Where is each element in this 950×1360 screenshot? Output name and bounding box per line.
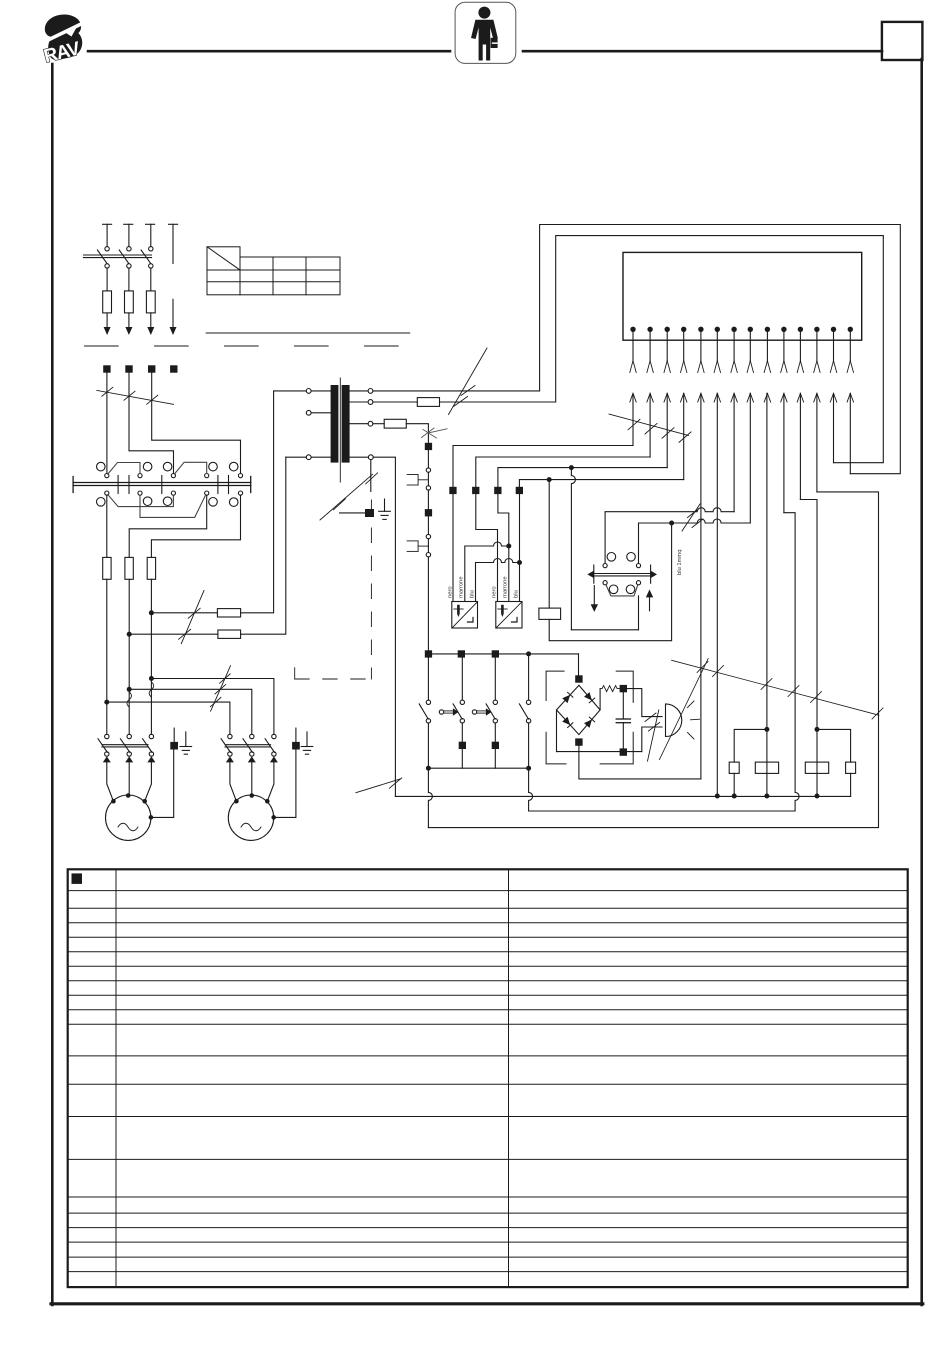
right arrow head [651, 571, 657, 578]
contactor coil group KM1 [729, 727, 778, 796]
wire X3 row to rectifier [578, 654, 580, 675]
plus terminal square [620, 685, 627, 692]
bottom terminal square [575, 738, 582, 745]
connector pin circle [426, 468, 430, 472]
core line [339, 378, 341, 482]
wire pin1 to X2-1 [453, 446, 633, 487]
SQ1 blu branch with hops [476, 559, 520, 602]
long cable line D11 [672, 660, 883, 719]
cup bridge [606, 585, 638, 596]
junction node [764, 727, 769, 732]
moving contact bottom right [636, 581, 640, 585]
long cable line D10 [659, 659, 708, 760]
branch from pin3 wire with hop, down to tilt cup return [571, 468, 575, 630]
svg-text:marrone: marrone [459, 576, 465, 598]
wire [427, 450, 429, 468]
relay K1 bottom wire [549, 523, 671, 641]
neutral segment upper [172, 224, 174, 263]
relay coil K1 [539, 608, 561, 619]
sq3 to SQ2 marrone [498, 494, 509, 601]
junction node right [526, 766, 531, 771]
motor M2 [228, 793, 276, 840]
wire SB1 common down to bottom-most wire (hops bus) [428, 768, 432, 827]
fixed ring top left [607, 553, 616, 562]
wires to fuses [106, 268, 108, 291]
contactor coil group KM2 [805, 727, 855, 797]
pin 2 [647, 327, 653, 457]
contactor KM1 contacts [98, 734, 155, 801]
wire pin8 to tilt contact 2 (with hops) [639, 519, 751, 563]
transformer TC1 [274, 378, 374, 482]
PE terminal square 2 [292, 742, 300, 750]
wire L1 drop [106, 224, 108, 246]
neutral tick [169, 223, 178, 225]
pin 12 [814, 327, 820, 492]
terminal square [425, 443, 432, 450]
bus double line [73, 482, 251, 484]
lower fixed contact rings [97, 498, 106, 507]
pin 3 [664, 327, 670, 468]
moving contact top left [603, 564, 607, 568]
switch contact circles bottom [105, 264, 109, 268]
motor M2 PE wire [274, 750, 296, 818]
diode 1 [562, 692, 573, 703]
bridge rectifier VD1 [546, 671, 662, 764]
up arrow [646, 590, 653, 598]
primary feed wire top [274, 390, 307, 392]
diode 4 [584, 717, 595, 728]
secondary common wire to bottom bus [373, 457, 395, 796]
secondary stubs from bar [350, 390, 369, 392]
dashed boundary bottom [295, 678, 372, 680]
cable marker D3 [422, 428, 448, 438]
ground symbol [379, 499, 391, 519]
connector pins: dots, forks, arrows [630, 327, 854, 796]
lower moving contacts [105, 491, 109, 495]
lower bridge A [108, 495, 174, 507]
wire pin2 to X2-2 [476, 457, 650, 487]
wire pin12 to right side loop [428, 492, 878, 828]
plug fork [407, 541, 428, 552]
fuse L2 [125, 291, 134, 313]
terminal square [425, 509, 432, 516]
parallel branch bracket [817, 729, 851, 762]
aux coil [729, 762, 739, 773]
wires fuse to arrows [106, 313, 108, 327]
actuator bar double line [594, 573, 651, 575]
down arrow [593, 586, 595, 605]
rectifier return wire [579, 752, 701, 779]
left arrow head [587, 571, 593, 578]
connector socket circle [426, 486, 430, 490]
junction node left [426, 766, 431, 771]
junction node W tap [149, 610, 154, 615]
main coil KM2 [805, 762, 828, 773]
cable marker D12 [356, 778, 402, 793]
pushbutton SB4 [519, 654, 530, 768]
tap wire U to motor 2 [107, 702, 230, 734]
secondary wire to control column with fuse FU7 [373, 419, 429, 443]
pin 9 [764, 327, 770, 796]
pin 7 [731, 327, 737, 512]
pole L2 tick [124, 223, 133, 225]
motor feed junction nodes [149, 676, 154, 681]
thermal triangles [226, 756, 234, 762]
pole ticks [117, 476, 119, 494]
wire pin10 jog, hops bus [529, 513, 800, 811]
junction node [526, 651, 531, 656]
wire L3 [152, 373, 241, 474]
pin 6 [714, 327, 720, 796]
bottom bus [395, 794, 850, 799]
aux coil [846, 762, 856, 773]
pushbutton SB2 with plunger [439, 658, 466, 769]
dashed boundary line [85, 345, 401, 347]
earth terminal square [365, 509, 374, 517]
primary terminal top [306, 389, 311, 394]
secondary wire with fuse FU6 [373, 236, 883, 463]
connector pin circle [426, 534, 430, 538]
upper bridge 2 [174, 462, 206, 474]
ground symbol 2 [180, 732, 192, 754]
fixed ring top right [627, 553, 636, 562]
pushbutton SB3 with plunger [472, 658, 499, 769]
control fuses FU1-FU3 [103, 557, 156, 579]
moving contact bottom left [603, 581, 607, 585]
linkage double bar [84, 254, 152, 256]
capacitor bottom terminal square [620, 748, 627, 755]
pin 5 [698, 327, 704, 779]
junction nodes on bus [715, 794, 720, 799]
row wire [428, 653, 578, 655]
junction node blu [517, 560, 522, 565]
ground symbol 3 [301, 732, 313, 754]
junction node V tap [127, 632, 132, 637]
wire [427, 516, 429, 534]
output 3 [151, 495, 240, 557]
diamond [557, 685, 601, 734]
dc plus via resistor R1 [599, 689, 601, 710]
proximity sensor SQ2 [492, 576, 523, 628]
dc minus rail [557, 751, 642, 753]
pushbutton SB1 [419, 658, 430, 769]
earth wire [340, 512, 366, 514]
plug fork [407, 475, 428, 486]
lower circles [105, 752, 109, 756]
tap wire W to motor 2 [151, 679, 274, 735]
cup output wire [638, 596, 640, 630]
header rule right of icon [523, 50, 882, 53]
pin 11 [797, 327, 803, 500]
stub above [173, 728, 175, 742]
motor M1 [106, 793, 154, 840]
cable marker D7 [609, 414, 691, 442]
header rule left of icon [88, 50, 450, 53]
junction node [815, 727, 820, 732]
flex squiggle on V [127, 692, 132, 707]
parallel branch bracket [734, 729, 767, 762]
capacitor C1 [622, 692, 624, 719]
border left [51, 64, 54, 1305]
pin 1 [630, 327, 636, 446]
secondary terminal 4 [368, 455, 373, 460]
wire V [128, 579, 130, 734]
output 2 [129, 495, 207, 557]
cable marker D9 [645, 710, 660, 761]
junction node on pin3 wire [569, 465, 574, 470]
down arrows [104, 327, 111, 335]
lower circles [228, 752, 232, 756]
diode 3 [562, 717, 573, 728]
bar end posts [593, 565, 595, 583]
junction node on pin8 wire [669, 521, 674, 526]
wire SB4 common down to mid wire (hops bus) [529, 768, 533, 811]
thermal triangles [103, 756, 111, 762]
tap wire V to motor 2 [129, 689, 252, 734]
pole L3 tick [146, 223, 155, 225]
primary bar [331, 385, 339, 463]
upper bridge 1 [108, 463, 140, 475]
pin 13 [830, 327, 836, 463]
secondary bar [342, 385, 350, 463]
primary feed wire bottom [286, 456, 307, 458]
pushbutton common wire [428, 767, 528, 769]
dashed boundary vertical [370, 500, 372, 679]
primary feed wire 1 with fuse FU4 [151, 612, 217, 614]
connector block X10 [623, 252, 862, 340]
flex squiggle on W [149, 682, 154, 697]
wire L2 [129, 373, 174, 474]
fixed ring bottom left [609, 585, 618, 594]
branch from pin4 wire to relay K1 [548, 480, 550, 608]
sq2 to SQ2 nero [476, 494, 498, 601]
output 1 [106, 495, 108, 557]
top-right revision box [882, 22, 923, 60]
wire tilt return [571, 629, 638, 631]
pin 10 [781, 327, 787, 513]
rating table [207, 247, 340, 295]
secondary terminal 3 [368, 421, 373, 426]
svg-text:nero: nero [448, 586, 454, 598]
fixed ring bottom right [626, 585, 635, 594]
terminal strip X1 (4 squares) [103, 365, 177, 372]
proximity sensor SQ1 [448, 576, 478, 628]
motor M1 PE wire [151, 750, 174, 818]
cable marker D1 [97, 387, 174, 404]
separator line under rating table [206, 332, 409, 334]
wire pin7 to tilt contact 1 (with hops) [605, 508, 734, 564]
wire L3 drop [150, 224, 152, 246]
legend table [68, 869, 908, 1287]
wire pin11 jog [800, 500, 817, 797]
main coil KM1 [755, 762, 778, 773]
pin 8 [747, 327, 753, 523]
fuse L3 [146, 291, 155, 313]
cable marker D5 [179, 591, 204, 644]
pin 14 [847, 327, 853, 474]
wire [427, 490, 429, 509]
bottom wire [578, 746, 580, 752]
border bottom [51, 1302, 923, 1305]
border right [920, 59, 923, 1305]
control column at x=428 [407, 443, 432, 651]
pin 4 [681, 327, 687, 480]
upper moving contacts [105, 474, 109, 478]
tilt / hand control switch assembly [587, 553, 657, 630]
svg-text:blu 1mmq: blu 1mmq [677, 550, 683, 575]
svg-text:marrone: marrone [503, 576, 509, 598]
junction node on pin4 wire [547, 477, 552, 482]
secondary terminal 2 [368, 400, 373, 405]
secondary terminal 0V top [368, 389, 373, 394]
switch contact circles top [105, 247, 109, 251]
SQ1 marrone branch with hop [465, 542, 509, 602]
sq4 to SQ2 blu [519, 494, 521, 601]
wire U [106, 579, 108, 734]
pole L1 tick [103, 223, 112, 225]
wire L1 [106, 373, 108, 474]
person icon [455, 2, 516, 63]
junction node marrone [506, 544, 511, 549]
diode 2 [584, 692, 595, 703]
wire W [150, 579, 152, 734]
svg-text:blu: blu [470, 590, 476, 598]
PE terminal square 1 [170, 742, 178, 750]
primary stubs to bar [311, 390, 331, 392]
wire pin3 to X2-3 [498, 468, 667, 487]
lamp HL1 [666, 701, 700, 739]
neutral segment lower [172, 299, 174, 327]
upper fixed contact rings [97, 462, 106, 471]
pushbutton row terminal squares [425, 650, 579, 657]
wire pin4 to X2-4 [519, 480, 683, 487]
cable marker D2 [449, 348, 488, 415]
svg-text:blu: blu [514, 590, 520, 598]
dashed boundary left tick [294, 668, 296, 679]
changeover switch (up/down inverter) [73, 462, 251, 517]
dashed enclosure corner brackets [546, 671, 633, 764]
wire down to pushbutton row [427, 557, 429, 650]
main disconnector QS1 with fuses, 3 poles + neutral [84, 224, 178, 335]
cable marker D6 [210, 666, 230, 712]
secondary wire 24V loop A [373, 225, 900, 474]
switch blades [97, 250, 107, 264]
connector socket circle [426, 553, 430, 557]
wire L2 drop [128, 224, 130, 246]
primary terminal mid (tap) [306, 410, 311, 415]
blades [221, 739, 230, 753]
transformer earth stub [370, 460, 372, 492]
primary feed wire 2 with fuse FU5 [129, 633, 218, 635]
terminal strip X2 (4 squares) [449, 487, 523, 494]
linkage double bar [102, 744, 148, 746]
moving contact top right [636, 564, 640, 568]
contactor KM2 contacts [221, 734, 278, 801]
sq1 to SQ1 nero [452, 494, 454, 601]
lower bridge B [140, 495, 206, 518]
bus end bars [72, 477, 74, 493]
svg-text:nero: nero [492, 586, 498, 598]
cable marker D4 [320, 473, 378, 520]
wiring X2 to proximity sensors [453, 494, 522, 601]
primary terminal bottom [306, 455, 311, 460]
leads to motor [230, 762, 237, 801]
cable marker D8 [682, 504, 703, 531]
lamp feed bottom [642, 727, 662, 752]
fuse L1 [103, 291, 112, 313]
stub above [295, 728, 297, 742]
leads to motor [107, 762, 114, 801]
blades [98, 739, 107, 753]
top terminal square [575, 675, 582, 682]
linkage double bar [225, 744, 270, 746]
lamp feed top [627, 689, 662, 717]
RAV logo [42, 14, 83, 67]
